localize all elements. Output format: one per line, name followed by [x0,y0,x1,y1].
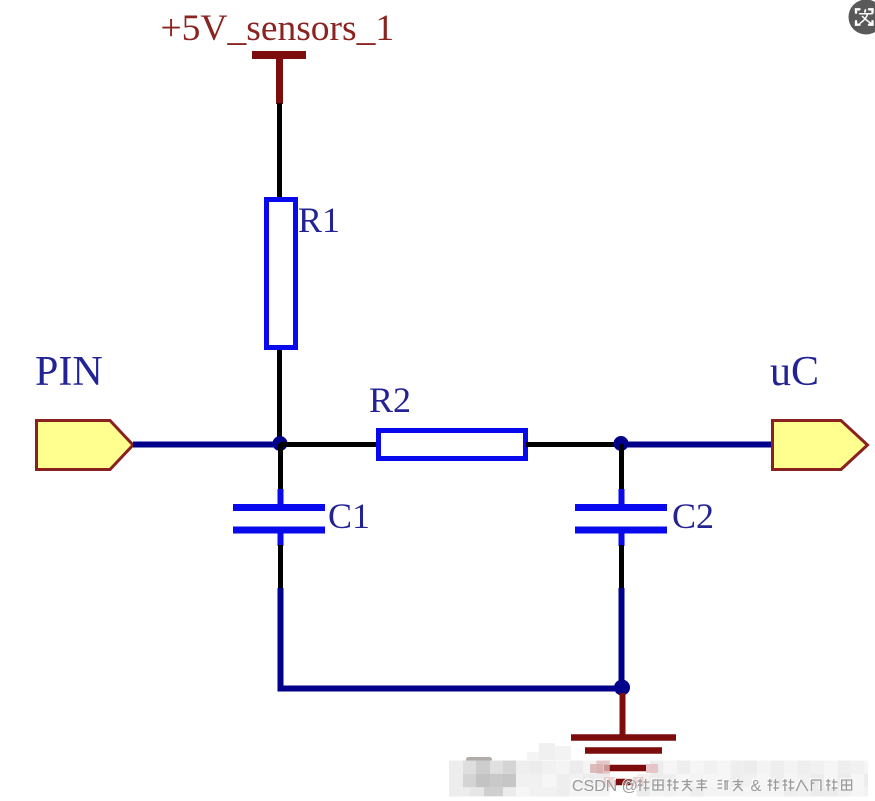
svg-text:&: & [751,778,762,795]
wire node A to R2 [280,442,378,447]
svg-text:R1: R1 [298,200,340,240]
wire C2 to bottom rail [619,588,625,688]
resistor R1 [267,200,296,348]
wire power to R1 [277,103,282,200]
wire node B to uC port [621,442,773,448]
wire C1 pin black segment [278,545,283,589]
power stub wire (dark red) [276,59,283,104]
svg-text:R2: R2 [369,380,411,420]
svg-text:C1: C1 [328,496,370,536]
svg-text:CSDN @: CSDN @ [572,778,638,795]
capacitor C1 [233,489,325,546]
wire R1 to node A [277,350,282,446]
svg-text:+5V_sensors_1: +5V_sensors_1 [161,8,395,49]
node B junction [614,436,629,451]
port uC [773,421,868,470]
ground stub wire [620,693,626,736]
node A junction [273,436,288,451]
svg-text:uC: uC [770,349,819,395]
power bar symbol [252,51,306,59]
watermark mosaic [449,743,868,797]
wire C1 to bottom rail [281,588,623,689]
wire R2 to node B [526,442,621,447]
wire node B down to C2 [619,444,624,491]
wire C2 pin black segment [619,545,624,589]
watermark text [571,777,852,795]
wire node A down to C1 [278,444,283,491]
ground symbol [571,738,676,783]
corner scan icon [849,0,875,35]
svg-text:C2: C2 [672,496,714,536]
capacitor C2 [575,489,667,546]
wire PIN to node A [133,442,280,448]
port PIN [37,421,134,470]
svg-text:PIN: PIN [35,349,103,395]
ground node junction [614,680,630,696]
resistor R2 [379,431,526,459]
